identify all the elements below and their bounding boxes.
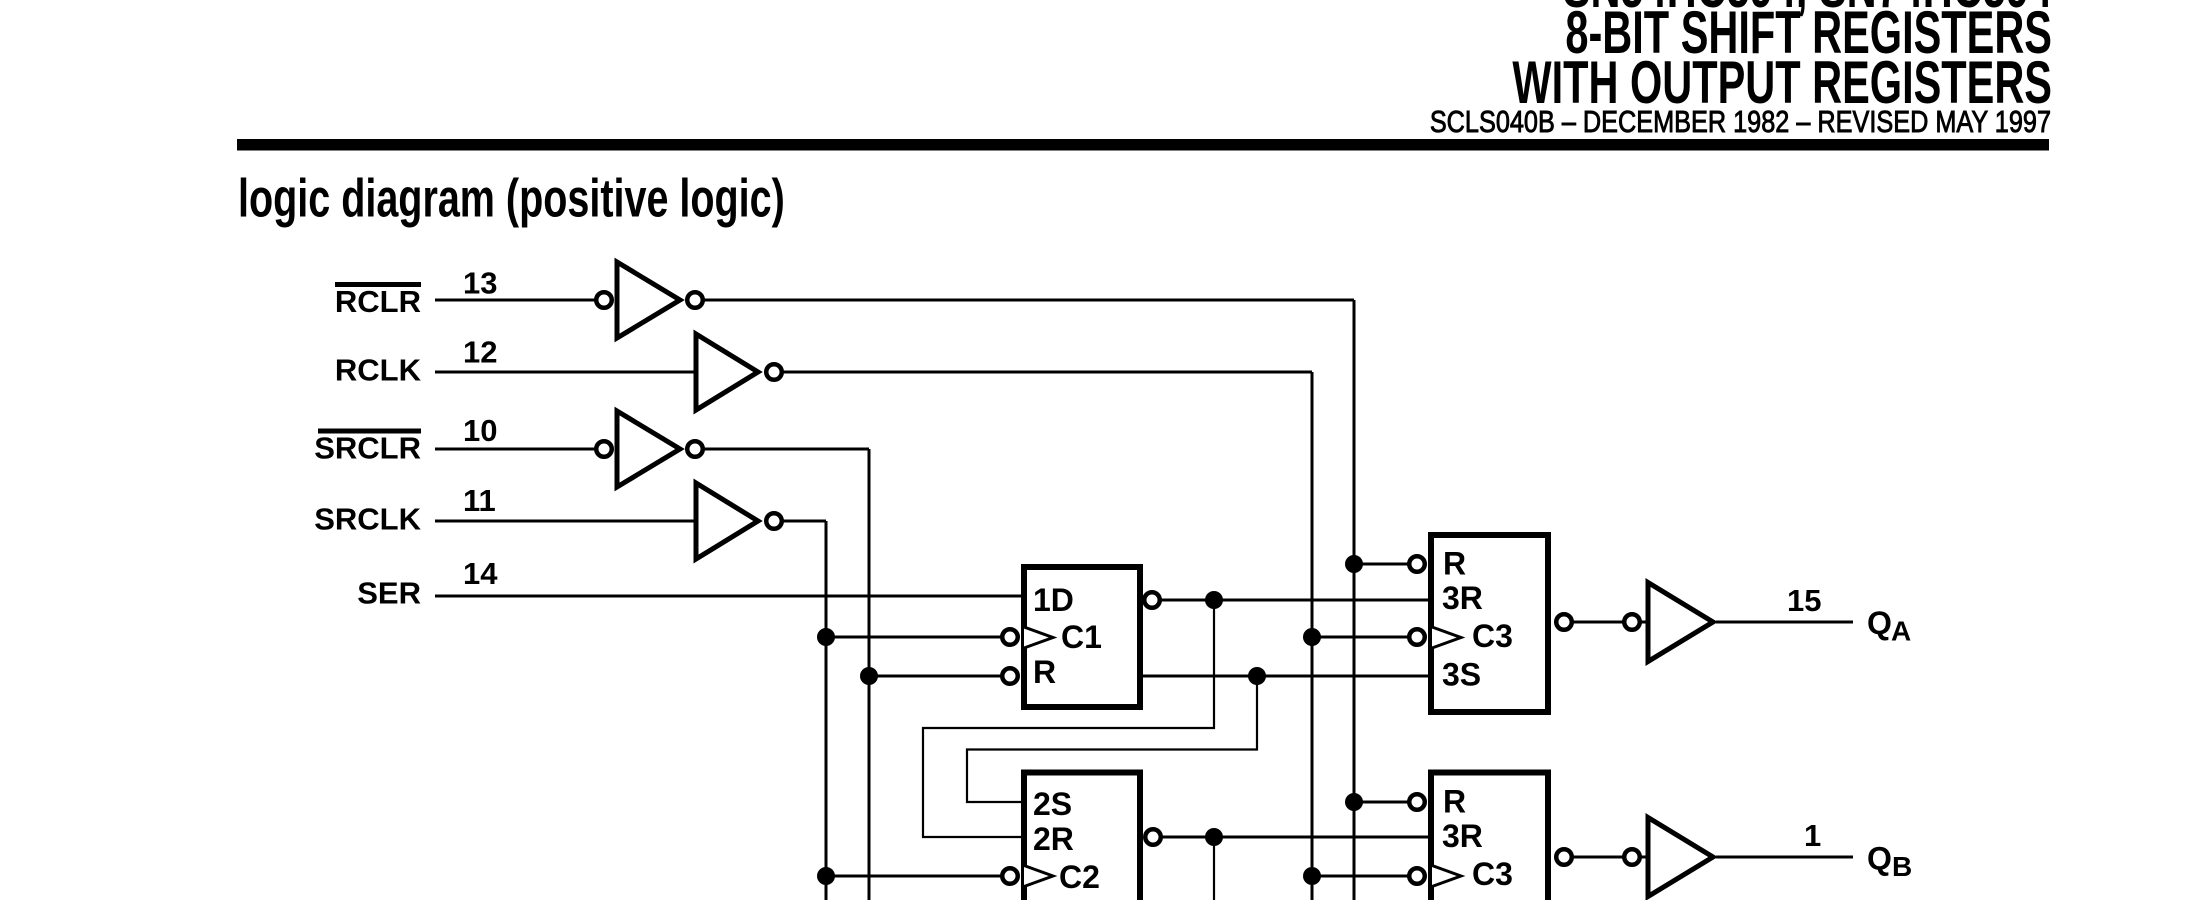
- svg-text:B: B: [1892, 851, 1912, 882]
- title line 3: [1512, 48, 2052, 115]
- svg-text:Q: Q: [1867, 605, 1892, 641]
- junction FF1 Q node: [1248, 667, 1266, 685]
- svg-text:Q: Q: [1867, 841, 1892, 877]
- wire FF4 C3 stub: [1312, 875, 1409, 878]
- bubble FF4 Qbar output: [1556, 849, 1572, 865]
- flip-flop FF4 box (output register B): [1431, 773, 1548, 900]
- wire QB output: [1564, 856, 1646, 859]
- svg-text:14: 14: [463, 556, 498, 591]
- svg-text:12: 12: [463, 335, 497, 370]
- bubble FF4 R input: [1409, 794, 1425, 810]
- svg-text:SER: SER: [357, 576, 421, 611]
- svg-text:SCLS040B – DECEMBER 1982 – REV: SCLS040B – DECEMBER 1982 – REVISED MAY 1…: [1430, 104, 2051, 139]
- svg-text:3S: 3S: [1442, 657, 1481, 693]
- FF2 clock chevron: [1024, 866, 1053, 887]
- wire SRCLR input: [435, 448, 596, 451]
- heading: logic diagram (positive logic): [238, 169, 785, 229]
- net label RCLR overline: [335, 282, 421, 287]
- wire FF3 C3 stub: [1312, 636, 1409, 639]
- svg-text:C3: C3: [1472, 856, 1513, 892]
- junction FF2 Qbar node: [1205, 828, 1223, 846]
- svg-text:C1: C1: [1061, 619, 1102, 655]
- FF3 clock chevron: [1432, 627, 1461, 648]
- FF4 clock chevron: [1432, 866, 1461, 887]
- bubble U5 input: [1624, 614, 1640, 630]
- title line 2: [1565, 0, 2052, 66]
- wire QA output: [1564, 621, 1646, 624]
- svg-text:RCLR: RCLR: [335, 284, 421, 319]
- svg-text:R: R: [1443, 546, 1466, 582]
- bubble FF2 Qbar output: [1145, 829, 1161, 845]
- wire FF4 R stub: [1354, 801, 1409, 804]
- wire FF1 Qbar to FF2 2R: [923, 600, 1214, 837]
- wire RCLK net vertical: [1311, 372, 1314, 900]
- junction RCLR to FF4 R: [1345, 793, 1363, 811]
- svg-text:RCLK: RCLK: [335, 353, 422, 388]
- bubble FF1 R input: [1002, 668, 1018, 684]
- svg-text:C3: C3: [1472, 618, 1513, 654]
- junction SRCLK to C2: [817, 867, 835, 885]
- bubble FF3 R input: [1409, 556, 1425, 572]
- wire SRCLK net horizontal: [782, 520, 826, 523]
- svg-text:SRCLK: SRCLK: [314, 502, 421, 537]
- junction RCLK to FF4 C3: [1303, 867, 1321, 885]
- svg-text:A: A: [1891, 616, 1911, 647]
- inverter U1 RCLR: [617, 262, 680, 338]
- junction RCLR to FF3 R: [1345, 555, 1363, 573]
- wire SRCLR net vertical: [868, 449, 871, 900]
- wire RCLK input: [435, 371, 696, 374]
- inverter U4 SRCLK: [696, 483, 758, 559]
- flip-flop FF2 box: [1024, 773, 1140, 900]
- wire SRCLK net vertical: [825, 521, 828, 900]
- net label SRCLR overline: [318, 429, 421, 434]
- buffer U6 QB: [1648, 818, 1713, 897]
- wire FF2 Qbar vertical to next stage: [1213, 837, 1215, 900]
- header rule: [237, 139, 2049, 151]
- wire QB to label: [1716, 856, 1853, 859]
- junction SRCLK to C1: [817, 628, 835, 646]
- svg-text:2R: 2R: [1033, 821, 1074, 857]
- wire C1 clock stub: [826, 636, 1002, 639]
- bubble FF1 C1 input: [1002, 629, 1018, 645]
- svg-text:logic diagram (positive logic): logic diagram (positive logic): [238, 169, 785, 229]
- svg-text:C2: C2: [1059, 859, 1100, 895]
- flip-flop FF3 box (output register A): [1431, 535, 1548, 712]
- document number line: [1430, 104, 2051, 139]
- bubble FF3 C3 input: [1409, 629, 1425, 645]
- wire FF1 Qbar to 3R: [1160, 599, 1429, 602]
- svg-text:13: 13: [463, 266, 497, 301]
- bubble U6 input: [1624, 849, 1640, 865]
- FF1 clock chevron: [1024, 627, 1053, 648]
- junction SRCLR to FF1 R: [860, 667, 878, 685]
- bubble U1 output: [687, 292, 703, 308]
- inverter U2 RCLK: [696, 334, 758, 410]
- bubble U1 input: [596, 292, 612, 308]
- bubble FF4 C3 input: [1409, 868, 1425, 884]
- bubble FF3 Qbar output: [1556, 614, 1572, 630]
- bubble FF2 C2 input: [1002, 868, 1018, 884]
- bubble U3 output: [687, 441, 703, 457]
- buffer U5 QA: [1648, 583, 1713, 662]
- wire FF3 R stub: [1354, 563, 1409, 566]
- svg-text:R: R: [1443, 784, 1466, 820]
- wire SRCLR net horizontal: [703, 448, 869, 451]
- junction FF1 Qbar node: [1205, 591, 1223, 609]
- svg-text:10: 10: [463, 413, 497, 448]
- title line 1 SN54HC594, SN74HC594 (cut off at top): [1563, 0, 2052, 20]
- svg-text:SRCLR: SRCLR: [314, 431, 421, 466]
- wire RCLR net vertical: [1353, 300, 1356, 900]
- bubble U2 output: [766, 364, 782, 380]
- svg-text:1: 1: [1804, 818, 1821, 853]
- wire SER to 1D: [435, 595, 1021, 598]
- wire FF1 R stub: [869, 675, 1002, 678]
- wire C2 clock stub: [826, 875, 1002, 878]
- svg-text:11: 11: [463, 483, 496, 518]
- svg-text:15: 15: [1787, 583, 1821, 618]
- wire FF2 Qbar to 3R of FF4: [1161, 836, 1429, 839]
- bubble U3 input: [596, 441, 612, 457]
- inverter U3 SRCLR: [617, 411, 680, 487]
- wire SRCLK input: [435, 520, 696, 523]
- svg-text:1D: 1D: [1033, 582, 1074, 618]
- wire RCLK net horizontal: [782, 371, 1312, 374]
- svg-text:3R: 3R: [1442, 580, 1483, 616]
- flip-flop FF1 box: [1024, 567, 1140, 707]
- wire RCLR input: [435, 299, 596, 302]
- svg-text:R: R: [1033, 654, 1056, 690]
- bubble U4 output: [766, 513, 782, 529]
- wire FF1 Q to 3S: [1143, 675, 1429, 678]
- wire QA to label: [1716, 621, 1853, 624]
- bubble FF1 Qbar output: [1144, 592, 1160, 608]
- svg-text:3R: 3R: [1442, 818, 1483, 854]
- junction RCLK to FF3 C3: [1303, 628, 1321, 646]
- wire FF1 Q to FF2 2S: [967, 676, 1257, 802]
- svg-text:2S: 2S: [1033, 786, 1072, 822]
- wire RCLR net horizontal: [703, 299, 1354, 302]
